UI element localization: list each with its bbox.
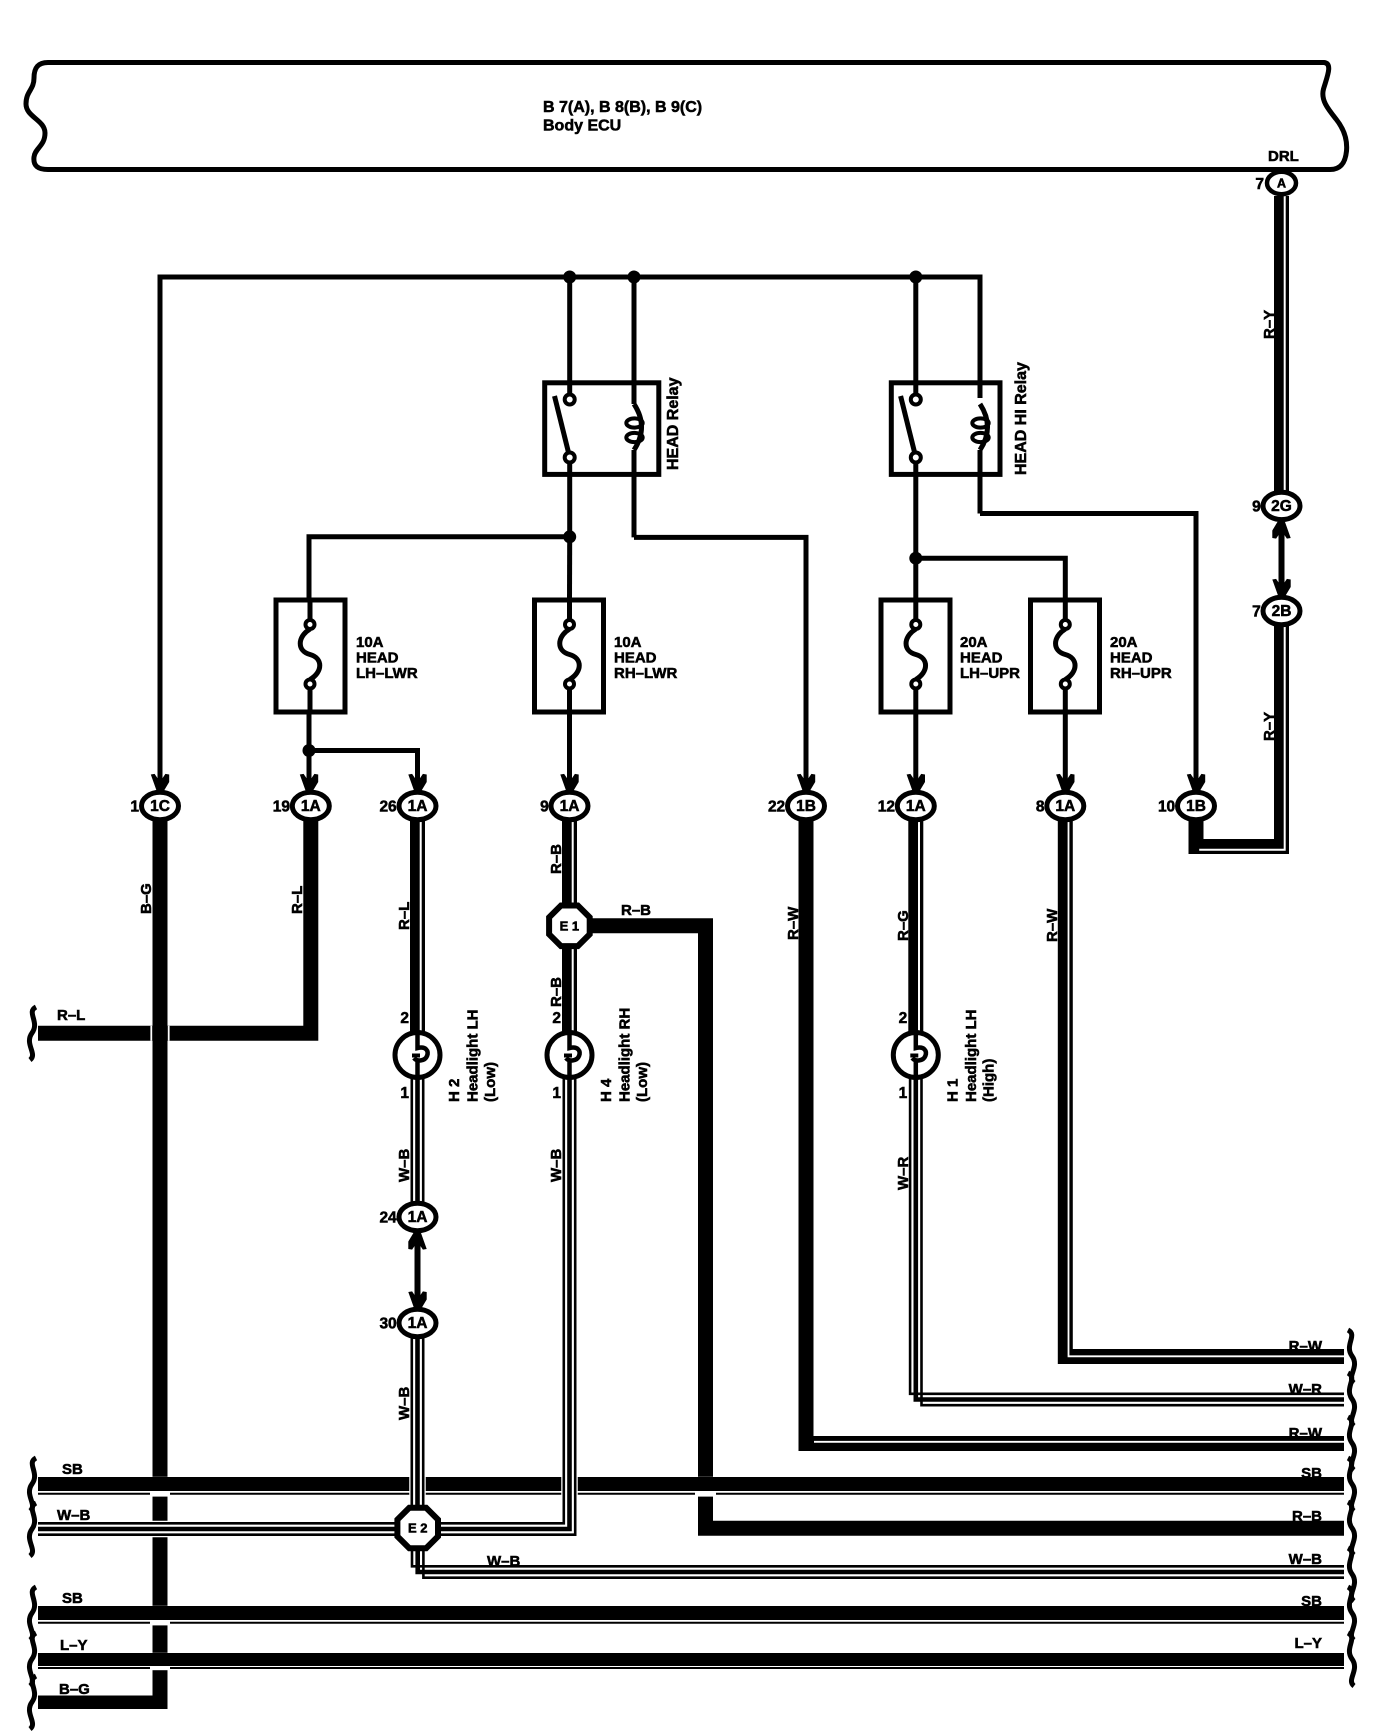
svg-text:H 2: H 2 xyxy=(446,1079,463,1102)
svg-text:L–Y: L–Y xyxy=(60,1637,88,1654)
edge mark right SB lower xyxy=(1348,1587,1355,1640)
svg-text:9: 9 xyxy=(1252,498,1261,515)
wire R-G from connector 12 (1A) to headlight H1 xyxy=(908,812,923,1045)
wire: HEAD HI relay switch output to fuses xyxy=(916,558,1066,600)
svg-text:2: 2 xyxy=(899,1010,908,1027)
edge mark left SB lower xyxy=(29,1587,36,1640)
svg-text:30: 30 xyxy=(379,1316,396,1333)
svg-text:B 7(A), B 8(B), B 9(C): B 7(A), B 8(B), B 9(C) xyxy=(543,99,702,116)
svg-text:RH–LWR: RH–LWR xyxy=(614,665,678,682)
svg-text:22: 22 xyxy=(768,799,785,816)
bus L-Y across page xyxy=(38,1653,1344,1670)
svg-text:Headlight RH: Headlight RH xyxy=(617,1008,634,1102)
arrow into connector 2B xyxy=(1272,579,1290,598)
connector 22 (1B) xyxy=(768,792,825,819)
fuse F4 20A HEAD RH-UPR xyxy=(1031,600,1172,712)
edge mark left B-G xyxy=(29,1676,36,1729)
svg-text:(High): (High) xyxy=(980,1059,997,1102)
edge mark right SB upper xyxy=(1348,1458,1355,1511)
svg-text:1A: 1A xyxy=(560,798,580,815)
svg-text:HEAD Relay: HEAD Relay xyxy=(665,377,682,470)
node: bus junction at HEAD HI relay switch xyxy=(909,271,922,284)
relay K1 HEAD Relay xyxy=(545,377,682,537)
arrow into connector 24 xyxy=(408,1231,426,1250)
svg-text:2B: 2B xyxy=(1272,603,1292,620)
fuse F1 10A HEAD LH-LWR xyxy=(276,600,418,712)
svg-text:W–B: W–B xyxy=(1289,1551,1323,1568)
ground E2 xyxy=(397,1508,438,1549)
fuse F3 20A HEAD LH-UPR xyxy=(881,600,1020,712)
svg-text:R–W: R–W xyxy=(785,906,802,940)
svg-text:R–L: R–L xyxy=(57,1007,85,1024)
wire R-W from connector 22 (1B) to right edge xyxy=(806,812,1344,1444)
wire R-Y from Body ECU connector A to connector 2G xyxy=(1274,196,1289,495)
svg-text:W–B: W–B xyxy=(487,1553,521,1570)
connector 1 (1C) xyxy=(130,792,178,819)
lamp H2 Headlight LH (Low) xyxy=(395,1033,440,1078)
wire W-B from headlight H2 to connector 24 xyxy=(412,1065,423,1204)
relay K2 HEAD HI Relay xyxy=(891,362,1030,558)
svg-text:Headlight LH: Headlight LH xyxy=(465,1010,482,1103)
wire: HEAD HI relay switch feed xyxy=(913,277,918,395)
connector 10 (1B) xyxy=(1158,792,1215,819)
svg-text:R–W: R–W xyxy=(1044,908,1061,942)
svg-text:2: 2 xyxy=(400,1010,409,1027)
svg-text:1: 1 xyxy=(899,1085,908,1102)
svg-text:R–L: R–L xyxy=(289,886,306,914)
node: bus junction at HEAD relay switch xyxy=(563,271,576,284)
connector A on Body ECU xyxy=(1255,172,1296,194)
wire: HEAD relay switch output to fuses xyxy=(309,537,570,600)
svg-text:8: 8 xyxy=(1036,799,1045,816)
svg-text:Body ECU: Body ECU xyxy=(543,118,621,135)
svg-text:W–B: W–B xyxy=(396,1387,413,1421)
svg-text:RH–UPR: RH–UPR xyxy=(1110,665,1172,682)
wire W-B from left edge to ground E2 xyxy=(38,1523,400,1534)
wire link between connectors 2G and 2B xyxy=(1279,528,1285,590)
wire R-Y from connector 2B to connector 10 (1B) xyxy=(1196,622,1282,847)
arrow into connector 2G xyxy=(1272,520,1290,539)
svg-text:L–Y: L–Y xyxy=(1294,1635,1322,1652)
arrow into connector 22 xyxy=(797,774,815,793)
edge mark right W-B xyxy=(1348,1548,1355,1601)
wire R-B from ground E1 to headlight H4 xyxy=(562,940,577,1045)
arrow into connector 26 xyxy=(408,774,426,793)
edge mark right L-Y xyxy=(1348,1633,1355,1686)
svg-text:R–Y: R–Y xyxy=(1261,310,1278,339)
svg-text:H 1: H 1 xyxy=(944,1079,961,1102)
edge mark right R-W upper xyxy=(1348,1330,1355,1383)
wire: HEAD relay coil output to connector 22 xyxy=(634,537,806,793)
svg-text:R–Y: R–Y xyxy=(1261,712,1278,741)
Body ECU box xyxy=(26,63,1347,170)
wire: fuse F4 output to connector 8 xyxy=(1063,712,1068,793)
bus SB (lower) across page xyxy=(38,1606,1344,1626)
svg-text:20A: 20A xyxy=(960,634,988,651)
svg-text:2G: 2G xyxy=(1271,498,1292,515)
lamp H4 Headlight RH (Low) xyxy=(547,1033,592,1078)
arrow into connector 12 xyxy=(907,774,925,793)
fuse F2 10A HEAD RH-LWR xyxy=(535,600,678,712)
svg-text:SB: SB xyxy=(62,1461,83,1478)
connector 2G xyxy=(1252,492,1300,519)
svg-text:HEAD HI Relay: HEAD HI Relay xyxy=(1013,362,1030,475)
svg-text:W–R: W–R xyxy=(1289,1381,1323,1398)
svg-text:R–B: R–B xyxy=(548,977,565,1007)
svg-text:1A: 1A xyxy=(408,1209,428,1226)
svg-text:1: 1 xyxy=(130,799,139,816)
wire R-B from ground E1 right to bottom right edge xyxy=(590,926,1344,1529)
svg-text:B–G: B–G xyxy=(59,1681,90,1698)
wire W-R from headlight H1 to right edge xyxy=(910,1065,1344,1405)
svg-text:HEAD: HEAD xyxy=(614,650,657,667)
connector 26 (1A) xyxy=(379,792,436,819)
svg-text:10: 10 xyxy=(1158,799,1175,816)
svg-text:Headlight LH: Headlight LH xyxy=(963,1010,980,1103)
svg-text:1A: 1A xyxy=(408,1315,428,1332)
svg-text:HEAD: HEAD xyxy=(960,650,1003,667)
svg-text:7: 7 xyxy=(1252,604,1261,621)
svg-text:W–B: W–B xyxy=(396,1149,413,1183)
edge mark left SB upper xyxy=(29,1458,36,1511)
wire W-B from ground E2 to right edge xyxy=(412,1548,1344,1578)
crossing nick R-L over B-G xyxy=(150,1026,152,1041)
svg-text:R–W: R–W xyxy=(1289,1338,1323,1355)
svg-text:1: 1 xyxy=(400,1085,409,1102)
svg-text:HEAD: HEAD xyxy=(1110,650,1153,667)
connector 12 (1A) xyxy=(878,792,935,819)
connector 24 (1A) xyxy=(379,1203,436,1230)
svg-text:R–W: R–W xyxy=(1289,1425,1323,1442)
svg-text:R–B: R–B xyxy=(1292,1508,1322,1525)
edge mark left L-Y xyxy=(29,1633,36,1686)
label H1 Headlight LH (High) xyxy=(944,1010,997,1103)
edge mark right W-R xyxy=(1348,1373,1355,1426)
connector 19 (1A) xyxy=(273,792,330,819)
wire W-B from connector 30 to ground E2 xyxy=(412,1330,423,1510)
svg-text:B–G: B–G xyxy=(138,883,155,914)
svg-text:(Low): (Low) xyxy=(482,1062,499,1102)
svg-text:24: 24 xyxy=(379,1210,397,1227)
svg-text:1A: 1A xyxy=(408,798,428,815)
svg-text:R–L: R–L xyxy=(396,902,413,930)
wire R-L from connector 26 (1A) to headlight H2 xyxy=(410,812,425,1045)
bus SB (upper) across page xyxy=(38,1477,1344,1497)
svg-text:W–B: W–B xyxy=(57,1507,91,1524)
connector 2B xyxy=(1252,597,1300,624)
arrow into connector 30 xyxy=(408,1291,426,1310)
wire: HEAD relay switch feed xyxy=(567,277,572,395)
svg-text:R–G: R–G xyxy=(895,910,912,941)
svg-text:9: 9 xyxy=(540,799,549,816)
wire: HEAD HI relay coil output to connector 10 xyxy=(980,514,1196,794)
wire W-B from headlight H4 down to ground E2 xyxy=(440,1065,575,1535)
svg-text:A: A xyxy=(1277,177,1286,191)
svg-text:E 2: E 2 xyxy=(408,1521,428,1536)
ground E1 xyxy=(549,906,590,947)
arrow into connector 9 xyxy=(560,774,578,793)
wire R-B from connector 9 (1A) to ground E1 xyxy=(562,812,577,912)
svg-text:HEAD: HEAD xyxy=(356,650,399,667)
svg-text:26: 26 xyxy=(379,799,397,816)
svg-text:1A: 1A xyxy=(301,798,321,815)
svg-text:1A: 1A xyxy=(906,798,926,815)
connector 8 (1A) xyxy=(1036,792,1084,819)
svg-text:10A: 10A xyxy=(356,634,384,651)
label H2 Headlight LH (Low) xyxy=(446,1010,499,1103)
svg-text:DRL: DRL xyxy=(1268,148,1299,165)
svg-text:7: 7 xyxy=(1255,176,1264,193)
wire: fuse F2 output to connector 9 xyxy=(567,712,572,793)
svg-text:19: 19 xyxy=(273,799,291,816)
svg-text:(Low): (Low) xyxy=(634,1062,651,1102)
lamp H1 Headlight LH (High) xyxy=(893,1033,938,1078)
node: junction below fuse F1 xyxy=(303,744,316,757)
svg-text:W–B: W–B xyxy=(548,1149,565,1183)
svg-text:E 1: E 1 xyxy=(560,919,580,934)
svg-text:LH–UPR: LH–UPR xyxy=(960,665,1020,682)
wire: fuse F3 output to connector 12 xyxy=(913,712,918,793)
svg-text:1B: 1B xyxy=(1186,798,1206,815)
wire B-G from connector 1 (1C) down to B-G bus xyxy=(153,812,168,1709)
edge mark right R-W lower xyxy=(1348,1417,1355,1470)
wire R-W from connector 8 (1A) to right edge xyxy=(1065,812,1344,1357)
svg-text:H 4: H 4 xyxy=(598,1078,615,1102)
arrow into connector 10 xyxy=(1187,774,1205,793)
arrow into connector 8 xyxy=(1056,774,1074,793)
svg-text:SB: SB xyxy=(1301,1465,1322,1482)
arrow into connector 1 xyxy=(151,774,169,793)
node: junction below HEAD relay xyxy=(563,530,576,543)
svg-text:1B: 1B xyxy=(796,798,816,815)
svg-text:2: 2 xyxy=(552,1010,561,1027)
wire: main feed bus from body harness xyxy=(160,277,980,796)
svg-text:SB: SB xyxy=(1301,1593,1322,1610)
wire link between connectors 24 and 30 xyxy=(415,1224,421,1316)
svg-text:R–B: R–B xyxy=(548,844,565,874)
svg-text:R–B: R–B xyxy=(621,902,651,919)
svg-text:1: 1 xyxy=(552,1085,561,1102)
svg-text:20A: 20A xyxy=(1110,634,1138,651)
arrow into connector 19 xyxy=(300,774,318,793)
node: junction below HEAD HI relay xyxy=(909,552,922,565)
svg-text:12: 12 xyxy=(878,799,895,816)
edge mark left W-B xyxy=(29,1503,36,1556)
svg-text:LH–LWR: LH–LWR xyxy=(356,665,418,682)
wire R-L from connector 19 (1A) to left edge xyxy=(38,812,311,1033)
connector 30 (1A) xyxy=(379,1309,436,1336)
connector 9 (1A) xyxy=(540,792,588,819)
edge mark left R-L xyxy=(29,1007,36,1060)
svg-text:W–R: W–R xyxy=(895,1157,912,1191)
wire: HEAD relay coil feed xyxy=(632,277,637,404)
bus B-G bottom left xyxy=(38,1696,168,1710)
svg-text:1A: 1A xyxy=(1055,798,1075,815)
svg-text:1C: 1C xyxy=(150,798,170,815)
svg-text:10A: 10A xyxy=(614,634,642,651)
wire: fuse F1 output to connectors 19 and 26 xyxy=(307,712,312,793)
label H4 Headlight RH (Low) xyxy=(598,1008,651,1102)
svg-text:SB: SB xyxy=(62,1590,83,1607)
node: bus junction at HEAD relay coil xyxy=(628,271,641,284)
edge mark right R-B xyxy=(1348,1502,1355,1555)
